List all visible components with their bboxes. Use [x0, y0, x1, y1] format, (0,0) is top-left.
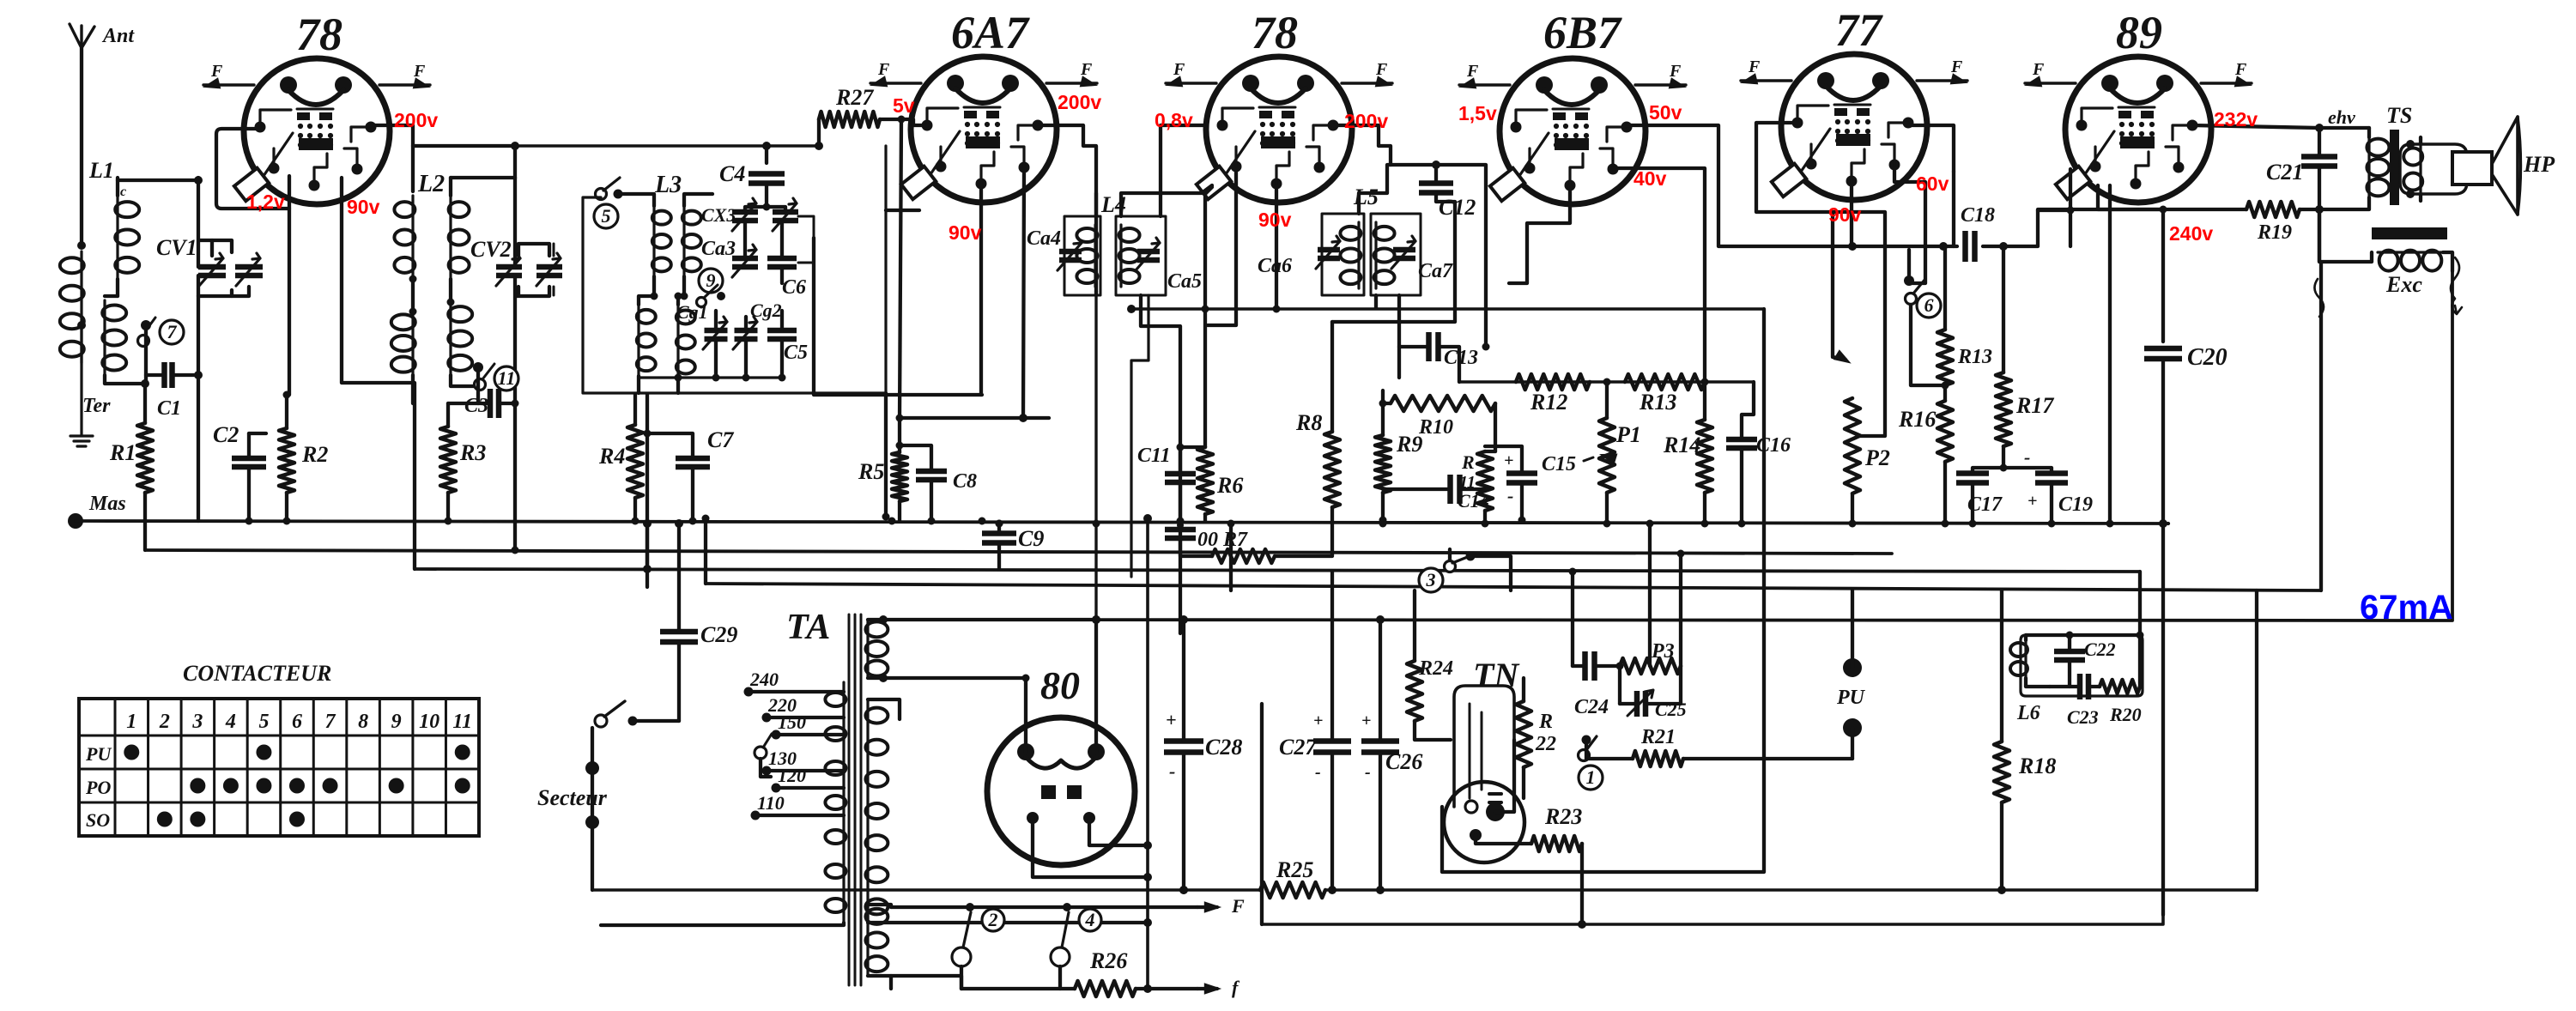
svg-text:F: F	[2032, 60, 2045, 79]
wire y445 line	[1459, 378, 1754, 386]
resistor R18	[1994, 590, 2056, 890]
label 1,2v V1 cathode	[246, 191, 285, 213]
svg-text:CV2: CV2	[470, 237, 512, 262]
wire junction dots bus	[245, 517, 2114, 554]
switch node 5	[594, 178, 623, 228]
coil L1 secondary top	[115, 178, 139, 296]
coil L3 b	[681, 194, 713, 300]
tube V2 6A7	[870, 7, 1097, 203]
svg-text:C1: C1	[157, 397, 181, 420]
svg-text:HP: HP	[2523, 152, 2555, 177]
svg-text:1,2v: 1,2v	[246, 191, 285, 213]
capacitor C15 electrolytic	[1485, 446, 1576, 520]
wire V2 grid stub	[814, 185, 982, 395]
svg-text:240: 240	[749, 669, 779, 690]
resistor R27	[815, 85, 908, 150]
svg-text:C7: C7	[707, 427, 734, 452]
svg-text:C24: C24	[1574, 696, 1609, 718]
svg-text:F: F	[210, 62, 223, 81]
capacitor C6	[767, 221, 806, 299]
varcap C25	[1620, 666, 1687, 720]
label Cg2	[750, 300, 782, 321]
resistor R20	[2100, 635, 2142, 725]
wire v1318	[1131, 295, 1149, 577]
label 1,5v V4	[1458, 102, 1497, 124]
svg-text:7: 7	[325, 711, 336, 733]
resistor R22	[1516, 678, 1556, 798]
svg-text:2: 2	[988, 909, 998, 930]
svg-text:F: F	[1950, 58, 1963, 76]
svg-text:C20: C20	[2187, 344, 2227, 371]
svg-text:77: 77	[1835, 4, 1883, 56]
resistor R17	[1996, 246, 2054, 468]
resistor R2	[279, 395, 328, 521]
svg-text:200v: 200v	[394, 109, 438, 131]
coil TA HT mid	[865, 699, 1152, 927]
svg-text:-: -	[2024, 446, 2030, 468]
svg-text:8: 8	[358, 711, 368, 733]
svg-text:P2: P2	[1864, 445, 1890, 470]
svg-text:6: 6	[292, 711, 302, 733]
svg-text:C28: C28	[1205, 735, 1242, 760]
label 67mA current	[2360, 589, 2453, 627]
svg-text:+: +	[1313, 711, 1323, 730]
resistor R10	[1379, 396, 1496, 451]
wire 240v line	[2038, 209, 2246, 342]
transformer TA core	[849, 614, 861, 985]
resistor R8	[1295, 322, 1340, 507]
wire V4 60v line	[1894, 168, 1925, 283]
svg-text:C26: C26	[1385, 749, 1422, 774]
svg-text:Secteur: Secteur	[537, 785, 608, 810]
capacitor C5	[767, 311, 808, 378]
resistor R1	[109, 379, 153, 550]
svg-text:R27: R27	[835, 85, 874, 110]
wire V4 40v stub	[1613, 168, 1705, 382]
label 90v V3 screen	[1258, 209, 1292, 231]
svg-text:R13: R13	[1639, 390, 1676, 415]
trimmer Cg1	[703, 311, 728, 378]
svg-text:6B7: 6B7	[1543, 7, 1622, 58]
capacitor C18	[1961, 204, 1995, 262]
resistor R11	[1459, 451, 1495, 524]
wire V1 screen stub	[342, 178, 415, 569]
resistor R13	[1625, 374, 1705, 415]
label 50v V4	[1649, 101, 1682, 124]
svg-text:6A7: 6A7	[951, 7, 1030, 58]
label 60v V5	[1916, 173, 1949, 195]
svg-text:TS: TS	[2386, 103, 2412, 128]
svg-text:-: -	[1365, 763, 1371, 782]
svg-text:200v: 200v	[1344, 110, 1388, 132]
svg-text:232v: 232v	[2214, 108, 2258, 130]
svg-text:R21: R21	[1640, 726, 1676, 748]
resistor R14	[1663, 382, 1712, 524]
svg-text:Mas: Mas	[88, 493, 126, 515]
svg-text:R25: R25	[1276, 857, 1313, 882]
svg-text:CX3: CX3	[701, 204, 736, 226]
resistor R9	[1375, 390, 1422, 528]
svg-text:67mA: 67mA	[2360, 589, 2453, 627]
wire V4 left stub	[1436, 165, 1490, 351]
lamp 2	[952, 909, 1004, 989]
switch node 3	[1419, 549, 1511, 592]
svg-text:C8: C8	[953, 470, 977, 493]
svg-text:F: F	[2234, 60, 2247, 79]
varcap CV2	[470, 178, 562, 550]
tube V1 78	[203, 9, 430, 204]
svg-text:C15: C15	[1542, 453, 1576, 475]
svg-text:1: 1	[1586, 766, 1596, 788]
wire V1 cathode stub	[283, 176, 291, 399]
label 5v V2 grid	[893, 94, 915, 117]
wire AVC 360	[1127, 305, 1764, 313]
svg-text:200v: 200v	[1058, 91, 1101, 113]
svg-text:3: 3	[1426, 569, 1436, 590]
capacitor+resistor R7	[1165, 507, 1332, 563]
coil L6	[2010, 635, 2050, 724]
coil TA HT top	[865, 615, 1100, 682]
wire PU	[1836, 590, 1866, 759]
svg-text:5: 5	[602, 205, 611, 227]
tube V6 89	[2025, 7, 2252, 203]
svg-text:R3: R3	[459, 440, 486, 465]
wire L5 wiring	[1332, 160, 1455, 378]
trimmer Cg2	[733, 317, 758, 378]
svg-text:C27: C27	[1279, 735, 1317, 760]
wire L3 right v	[882, 146, 890, 521]
svg-text:R17: R17	[2015, 393, 2054, 418]
svg-text:+: +	[1361, 711, 1371, 730]
svg-text:120: 120	[778, 765, 806, 786]
svg-text:R5: R5	[858, 459, 884, 484]
wire V1 plate 200v	[367, 125, 519, 150]
trimmer CX3	[701, 198, 767, 231]
svg-text:Exc: Exc	[2385, 272, 2422, 297]
IF can L5 left	[1258, 185, 1379, 295]
wire L2 top right	[513, 146, 517, 178]
svg-text:22: 22	[1535, 733, 1556, 755]
svg-text:R1: R1	[109, 440, 136, 465]
svg-text:78: 78	[296, 9, 342, 60]
svg-text:+: +	[1504, 451, 1513, 470]
svg-text:R14: R14	[1663, 433, 1700, 457]
wire 77 bottom stub	[1850, 184, 1853, 246]
capacitor C19 electrolytic	[2003, 446, 2093, 524]
capacitor C26	[1361, 615, 1422, 894]
capacitor C14	[1383, 475, 1489, 512]
wire 200v to L2	[411, 146, 415, 191]
svg-text:P3: P3	[1651, 640, 1675, 663]
wire long 170	[515, 144, 819, 148]
resistor R6	[1197, 447, 1243, 521]
label 200v V3 plate	[1344, 110, 1388, 132]
svg-text:11: 11	[1459, 473, 1476, 492]
wire V2 cath stub	[896, 169, 1050, 422]
pot P3	[1616, 520, 1685, 705]
svg-text:R26: R26	[1089, 948, 1127, 973]
coil L1 secondary bottom	[102, 296, 146, 384]
resistor R5	[858, 452, 907, 521]
svg-text:C18: C18	[1961, 204, 1995, 227]
label 40v V4	[1633, 167, 1667, 190]
coil L3 a	[618, 172, 682, 296]
wire V3 grid stub	[1273, 185, 1281, 313]
capacitor C3	[464, 386, 519, 418]
svg-text:C6: C6	[782, 276, 806, 299]
resistor R24	[1407, 590, 1453, 740]
svg-text:R20: R20	[2109, 704, 2142, 725]
capacitor C4	[719, 142, 785, 207]
wire right verticals	[2159, 262, 2321, 915]
tube V4 6B7	[1459, 7, 1686, 204]
wire L3 bottom	[639, 216, 814, 394]
svg-text:F: F	[1231, 895, 1245, 917]
svg-text:R24: R24	[1418, 657, 1453, 680]
svg-text:C12: C12	[1439, 195, 1476, 220]
wire 6A7 tag link	[886, 209, 919, 212]
svg-text:+: +	[1166, 709, 1177, 730]
svg-text:c: c	[120, 185, 126, 199]
label TA	[786, 608, 830, 647]
wire V2 plate	[1038, 125, 1096, 292]
IF can L4 left	[1027, 216, 1100, 295]
svg-text:R4: R4	[598, 444, 625, 469]
svg-text:F: F	[1080, 60, 1093, 79]
wire V1 heater elbow	[216, 129, 289, 209]
resistor R16	[1898, 386, 1953, 524]
resistor R19	[2246, 202, 2324, 262]
trimmer CX3b	[763, 198, 799, 231]
svg-text:R10: R10	[1418, 416, 1453, 439]
svg-text:C21: C21	[2266, 160, 2303, 185]
capacitor C27	[1279, 572, 1351, 894]
wire long vertical 1337	[1143, 514, 1152, 993]
svg-text:240v: 240v	[2169, 222, 2213, 245]
label 90v V5	[1828, 203, 1862, 226]
wire V6 plate 232v	[2192, 124, 2369, 132]
node 11 switch	[473, 362, 518, 390]
label Mas	[68, 493, 126, 529]
svg-text:PO: PO	[85, 777, 111, 798]
label 240v V6	[2169, 222, 2213, 245]
svg-text:5v: 5v	[893, 94, 915, 117]
svg-text:7: 7	[167, 321, 178, 342]
tube V5 77	[1741, 4, 1967, 200]
wire tap bracket	[643, 394, 710, 584]
wire L4 wiring	[1096, 193, 1180, 633]
wire bus 5 67mA	[883, 271, 2452, 621]
IF can L5 right	[1371, 214, 1453, 295]
wire bus2 drops	[415, 521, 647, 587]
svg-text:Ca6: Ca6	[1258, 255, 1292, 277]
wire bus 3	[415, 569, 2140, 572]
svg-text:Ca5: Ca5	[1167, 270, 1202, 293]
capacitor C1	[146, 362, 198, 420]
wire V4 grid stub	[1509, 185, 1570, 283]
svg-text:4: 4	[1085, 909, 1095, 930]
svg-text:110: 110	[757, 792, 785, 814]
taps TA primary	[744, 669, 845, 820]
svg-text:C5: C5	[784, 342, 808, 364]
wire C1 node	[194, 371, 203, 521]
svg-text:+: +	[2027, 492, 2037, 511]
coil TA heater	[865, 905, 891, 989]
svg-text:R2: R2	[301, 442, 328, 467]
svg-text:C13: C13	[1444, 347, 1478, 369]
pot P2	[1845, 398, 1890, 524]
capacitor C11	[1137, 444, 1205, 522]
capacitor C20	[2144, 344, 2227, 524]
svg-text:CONTACTEUR: CONTACTEUR	[183, 661, 331, 686]
svg-text:L3: L3	[654, 172, 682, 198]
speaker HP	[2400, 117, 2555, 215]
svg-text:C4: C4	[719, 161, 745, 186]
capacitor C8	[896, 442, 978, 525]
svg-text:1: 1	[126, 711, 136, 733]
IF can L4 right	[1100, 192, 1202, 295]
svg-text:C25: C25	[1655, 699, 1687, 720]
svg-text:TA: TA	[786, 608, 830, 647]
resistor R25	[592, 857, 1325, 898]
svg-text:C17: C17	[1967, 493, 2003, 516]
label ehv	[2328, 106, 2355, 128]
svg-text:L2: L2	[417, 171, 445, 197]
svg-text:11: 11	[498, 367, 516, 389]
varcap CV1	[156, 178, 263, 296]
IF can L6	[2021, 635, 2143, 696]
svg-text:4: 4	[225, 711, 236, 733]
resistor R3	[440, 403, 486, 521]
coil TA primary	[601, 682, 846, 925]
svg-text:F: F	[413, 62, 426, 81]
choke Exc	[2319, 209, 2452, 297]
tube V3 78	[1166, 7, 1392, 203]
svg-text:Ca3: Ca3	[701, 238, 736, 260]
contacteur table	[79, 661, 479, 836]
svg-text:89: 89	[2116, 7, 2162, 58]
svg-text:90v: 90v	[1828, 203, 1862, 226]
resistor R21	[1633, 726, 1852, 766]
wire bus mas	[76, 521, 2168, 524]
svg-text:R23: R23	[1544, 804, 1582, 829]
svg-text:R13: R13	[1957, 346, 1992, 368]
svg-text:-: -	[1315, 763, 1321, 782]
label 90v V2 screen	[949, 221, 982, 244]
switch Secteur	[537, 701, 679, 890]
switch node 1	[1579, 736, 1633, 790]
tube TN	[1444, 656, 1531, 863]
pot P1	[1584, 382, 1641, 524]
resistor R15	[1937, 246, 1992, 385]
label 200v V2 plate	[1058, 91, 1101, 113]
wire V6 cath	[2098, 185, 2167, 214]
svg-text:Ca4: Ca4	[1027, 227, 1061, 250]
wire L6 drop	[2138, 572, 2142, 635]
wire V4 plate 50v	[1625, 125, 1856, 246]
svg-text:90v: 90v	[347, 196, 380, 218]
svg-text:L6: L6	[2016, 702, 2040, 724]
resistor R26	[891, 948, 1240, 998]
wire CV1 mid	[197, 296, 200, 375]
svg-text:C29: C29	[700, 622, 737, 647]
wire TN box	[1442, 309, 1764, 872]
svg-text:1,5v: 1,5v	[1458, 102, 1497, 124]
svg-text:Ca7: Ca7	[1418, 260, 1453, 282]
svg-text:F: F	[1669, 62, 1682, 81]
coil L2 secondary	[447, 142, 519, 386]
capacitor C21	[2266, 128, 2337, 209]
svg-text:L5: L5	[1353, 185, 1379, 209]
capacitor C17	[1956, 464, 2008, 524]
wire bottom lines right	[1262, 886, 2257, 924]
svg-text:C23: C23	[2067, 706, 2099, 728]
wire left bottom verticals	[1227, 520, 1263, 925]
svg-text:5: 5	[258, 711, 269, 733]
label 90v V1 screen	[347, 196, 380, 218]
wire L1 top to grid line	[118, 176, 203, 185]
svg-text:-: -	[1507, 485, 1513, 506]
svg-text:R19: R19	[2257, 221, 2292, 244]
svg-text:L1: L1	[88, 158, 114, 183]
svg-text:R: R	[1538, 711, 1553, 733]
svg-text:F: F	[1748, 58, 1761, 76]
svg-text:-: -	[1169, 760, 1175, 782]
wire 77 grid path	[1756, 123, 1885, 436]
resistor R12	[1516, 374, 1590, 415]
resistor R4	[598, 394, 643, 525]
wire L3 box	[583, 197, 886, 393]
tube V7 80	[987, 620, 1148, 877]
svg-text:90v: 90v	[1258, 209, 1292, 231]
svg-text:C22: C22	[2084, 639, 2116, 660]
capacitor C29	[660, 519, 737, 721]
svg-text:50v: 50v	[1649, 101, 1682, 124]
capacitor C24	[1569, 568, 1621, 719]
wire V3 left elbow	[1161, 125, 1212, 193]
svg-text:F: F	[877, 60, 890, 79]
wire c18 line	[1848, 210, 2038, 251]
svg-text:78: 78	[1252, 7, 1298, 58]
svg-text:F: F	[1466, 62, 1479, 81]
svg-text:3: 3	[191, 711, 203, 733]
svg-text:R12: R12	[1530, 390, 1567, 415]
svg-text:R18: R18	[2018, 754, 2056, 778]
svg-text:SO: SO	[86, 809, 110, 831]
svg-text:Cg1: Cg1	[676, 301, 708, 323]
capacitor C12	[1419, 184, 1476, 221]
svg-text:00 R7: 00 R7	[1197, 529, 1248, 551]
wire exc flux	[2314, 257, 2462, 317]
coil L3 c	[637, 293, 658, 394]
capacitor C16	[1726, 382, 1791, 524]
svg-text:R16: R16	[1898, 407, 1936, 432]
svg-text:60v: 60v	[1916, 173, 1949, 195]
svg-text:R8: R8	[1295, 410, 1322, 435]
svg-text:80: 80	[1040, 663, 1080, 707]
svg-text:2: 2	[159, 711, 170, 733]
wire V3 plate 200v	[1333, 125, 1391, 165]
capacitor C23	[2050, 674, 2100, 728]
wire V3 cath stub	[1202, 172, 1237, 447]
label Cg1	[676, 301, 708, 323]
coil L2 primary	[391, 171, 445, 403]
capacitor C13	[1399, 332, 1478, 382]
svg-text:150: 150	[778, 711, 806, 733]
svg-text:Ter: Ter	[82, 395, 111, 417]
svg-text:C11: C11	[1137, 445, 1171, 467]
svg-text:10: 10	[419, 711, 439, 733]
